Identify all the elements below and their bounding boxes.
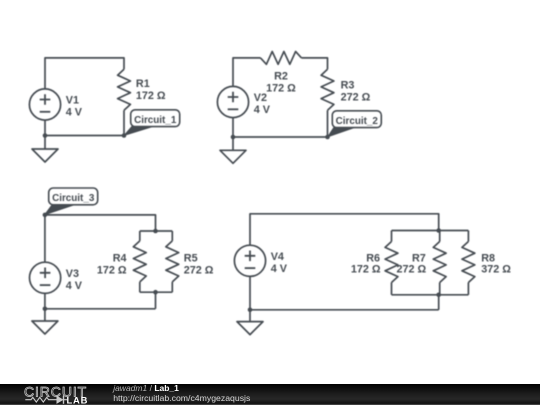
svg-text:R4: R4 <box>113 252 127 264</box>
svg-text:172 Ω: 172 Ω <box>266 82 296 94</box>
svg-text:Circuit_2: Circuit_2 <box>336 116 379 127</box>
svg-text:Circuit_1: Circuit_1 <box>134 115 177 126</box>
svg-text:4 V: 4 V <box>66 280 83 292</box>
svg-text:V4: V4 <box>271 251 284 263</box>
svg-text:V2: V2 <box>254 92 267 104</box>
svg-text:V3: V3 <box>66 268 79 280</box>
svg-text:4 V: 4 V <box>254 104 271 116</box>
svg-text:R3: R3 <box>341 80 355 92</box>
svg-text:R1: R1 <box>136 78 150 90</box>
svg-text:Circuit_3: Circuit_3 <box>52 193 95 204</box>
svg-text:372 Ω: 372 Ω <box>481 264 511 276</box>
svg-text:172 Ω: 172 Ω <box>97 264 127 276</box>
svg-text:V1: V1 <box>66 95 79 107</box>
svg-text:R2: R2 <box>274 70 288 82</box>
svg-text:172 Ω: 172 Ω <box>136 90 166 102</box>
svg-text:4 V: 4 V <box>271 263 288 275</box>
svg-text:4 V: 4 V <box>66 107 83 119</box>
svg-text:272 Ω: 272 Ω <box>397 264 427 276</box>
svg-text:272 Ω: 272 Ω <box>341 92 371 104</box>
svg-text:LAB: LAB <box>67 394 89 405</box>
svg-text:272 Ω: 272 Ω <box>184 264 214 276</box>
svg-text:R5: R5 <box>184 252 198 264</box>
svg-text:172 Ω: 172 Ω <box>351 264 381 276</box>
